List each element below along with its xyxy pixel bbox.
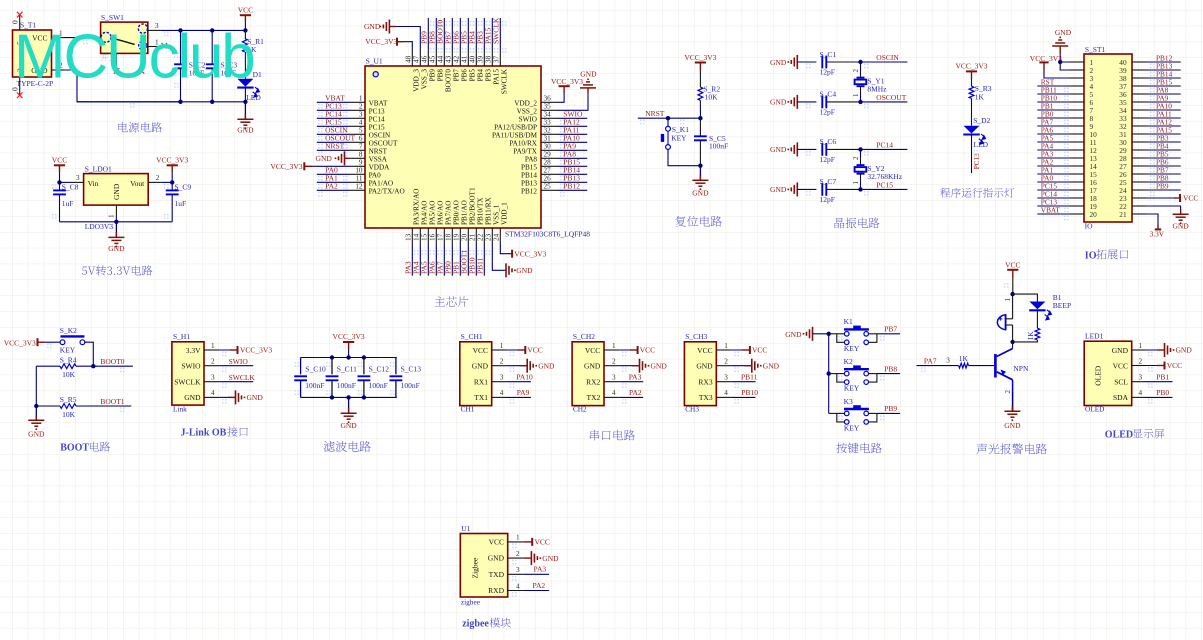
wire net PB14 from ST1 pin 38 <box>1146 77 1181 79</box>
svg-text:4: 4 <box>612 389 616 397</box>
svg-text:10K: 10K <box>705 93 719 102</box>
U1 top pin 47 VSS_3 <box>419 50 421 66</box>
svg-text:7: 7 <box>359 143 363 151</box>
svg-text:VCC: VCC <box>1113 361 1128 370</box>
svg-text:11: 11 <box>356 175 363 183</box>
ST1 left pin 19 <box>1070 205 1084 207</box>
svg-text:GND: GND <box>651 361 668 370</box>
svg-text:37: 37 <box>493 55 501 63</box>
capacitor S_C7 12pF <box>821 183 823 196</box>
title 串口电路 <box>590 430 635 441</box>
svg-text:S_C8: S_C8 <box>62 183 79 192</box>
U1 bottom pin 17 PA7/AO <box>443 228 445 244</box>
wire net SWCLK to U1 pin 37 <box>499 18 501 50</box>
svg-text:PA9: PA9 <box>517 388 530 397</box>
wire net PA12 from ST1 pin 32 <box>1146 125 1181 127</box>
svg-text:27: 27 <box>544 167 552 175</box>
wire net PC13 to U1 pin 2 <box>317 109 349 111</box>
svg-text:PA6/AO: PA6/AO <box>437 201 445 226</box>
transistor NPN <box>994 354 997 378</box>
capacitor S_C6 12pF <box>821 143 823 156</box>
S_CH3 pin 4 net PB10 <box>716 396 731 398</box>
SW1 bottom stub pins with no-connect X <box>115 53 117 69</box>
svg-text:GND: GND <box>237 126 254 135</box>
svg-text:GND: GND <box>108 244 125 253</box>
wire net OSCIN <box>861 61 908 63</box>
svg-text:PC13: PC13 <box>973 153 981 169</box>
svg-text:STM32F103C8T6_LQFP48: STM32F103C8T6_LQFP48 <box>505 230 590 239</box>
svg-text:PB1: PB1 <box>1156 372 1169 381</box>
svg-text:VCC: VCC <box>585 346 600 355</box>
svg-text:S_C7: S_C7 <box>820 177 837 186</box>
no-connect X bottom of T1 <box>17 92 23 98</box>
svg-text:3: 3 <box>516 566 520 574</box>
wire net PA4 from U1 pin 14 <box>419 244 421 276</box>
wire net PB12 from ST1 pin 40 <box>1146 61 1181 63</box>
svg-text:Vout: Vout <box>130 179 145 188</box>
wire net PA6 from U1 pin 16 <box>435 244 437 276</box>
svg-text:GND: GND <box>516 266 533 275</box>
svg-text:KEY: KEY <box>844 423 860 432</box>
svg-text:PB9: PB9 <box>1156 181 1169 190</box>
title 滤波电路 <box>324 441 371 452</box>
LED1 pin 1 to GND <box>1132 349 1146 351</box>
U1 left pin 5 OSCIN <box>349 133 365 135</box>
wire net PA2 to U1 pin 12 <box>317 189 349 191</box>
svg-text:3.3V: 3.3V <box>1150 230 1165 239</box>
wire net PB8 from K2 <box>877 373 900 375</box>
svg-text:GND: GND <box>488 554 505 563</box>
wire net PA8 from ST1 pin 36 <box>1146 93 1181 95</box>
svg-text:VCC_3V3: VCC_3V3 <box>365 37 397 46</box>
svg-text:5: 5 <box>359 127 363 135</box>
U1 left pin 1 VBAT <box>349 101 365 103</box>
wire net PA1 to ST1 pin 15 <box>1037 173 1070 175</box>
wire net OSCOUT to U1 pin 6 <box>317 141 349 143</box>
svg-text:GND: GND <box>1112 346 1129 355</box>
wire net PB13 from ST1 pin 39 <box>1146 69 1181 71</box>
wire net PC13 from D2 <box>971 135 973 174</box>
S_CH1 pin 3 net PA10 <box>492 381 507 383</box>
resistor S_R3 1K <box>969 86 974 98</box>
ground GND boot <box>35 406 37 420</box>
wire net BOOT0 <box>93 365 133 367</box>
wire net PB7 from ST1 pin 26 <box>1146 173 1181 175</box>
wire net PB0 from U1 pin 18 <box>451 244 453 276</box>
ST1 right pin 29 <box>1132 149 1146 151</box>
svg-text:2: 2 <box>516 550 520 558</box>
svg-text:S_LDO1: S_LDO1 <box>85 165 112 174</box>
LED D1 <box>244 52 246 79</box>
svg-text:PA3: PA3 <box>534 565 547 574</box>
ST1 left pin 18 <box>1070 197 1084 199</box>
ground GND reset <box>699 166 701 180</box>
svg-text:38: 38 <box>485 55 493 63</box>
svg-text:GND: GND <box>472 362 489 371</box>
SW1 label 开关 <box>101 54 116 61</box>
ST1 right pin 36 <box>1132 93 1146 95</box>
ST1 right pin 32 <box>1132 125 1146 127</box>
svg-text:VCC: VCC <box>752 346 767 355</box>
svg-text:PA10: PA10 <box>516 372 533 381</box>
capacitor S_C13 100nF <box>395 358 397 375</box>
LED S_D2 <box>971 98 973 125</box>
svg-text:GND: GND <box>340 421 357 430</box>
ST1 left pin 10 <box>1070 133 1084 135</box>
svg-text:30: 30 <box>544 143 552 151</box>
svg-text:20: 20 <box>1090 210 1098 219</box>
svg-text:PA7/AO: PA7/AO <box>445 201 453 226</box>
svg-text:VCC_3V3: VCC_3V3 <box>684 53 716 62</box>
wire net PB15 from U1 pin 28 <box>557 165 587 167</box>
svg-text:PB1/AO: PB1/AO <box>461 200 469 225</box>
svg-text:TX1: TX1 <box>474 393 488 402</box>
ST1 right pin 25 <box>1132 181 1146 183</box>
svg-text:LED1: LED1 <box>1085 332 1104 341</box>
U1 bottom pin 21 PB10/TX <box>475 228 477 244</box>
LED1 pin 4 net PB0 <box>1132 396 1146 398</box>
svg-text:GND: GND <box>696 362 713 371</box>
svg-text:GND: GND <box>316 154 333 163</box>
svg-text:Zigbee: Zigbee <box>471 557 480 578</box>
svg-text:GND: GND <box>364 22 381 31</box>
svg-text:GND: GND <box>770 98 787 107</box>
svg-text:S_C9: S_C9 <box>175 183 192 192</box>
svg-text:S_C4: S_C4 <box>820 90 837 99</box>
svg-text:32.768KHz: 32.768KHz <box>867 172 902 181</box>
svg-text:PA9/TX: PA9/TX <box>513 147 538 155</box>
svg-text:PA3: PA3 <box>629 372 642 381</box>
U1 right pin 31 PA10/RX <box>541 141 557 143</box>
svg-text:S_C11: S_C11 <box>337 365 357 374</box>
svg-text:TX2: TX2 <box>587 393 601 402</box>
svg-text:2: 2 <box>500 358 504 366</box>
svg-text:8: 8 <box>359 151 363 159</box>
svg-text:PA1/AO: PA1/AO <box>369 179 394 187</box>
svg-text:1: 1 <box>1139 342 1143 350</box>
wire net PA11 from ST1 pin 33 <box>1146 117 1181 119</box>
U1 top pin 41 PB5 <box>467 50 469 66</box>
ST1 right pin 33 <box>1132 117 1146 119</box>
wire net PB12 from U1 pin 25 <box>557 189 587 191</box>
svg-text:LDO3V3: LDO3V3 <box>85 222 114 231</box>
svg-text:S_C13: S_C13 <box>401 365 422 374</box>
SW1 pin 3 <box>148 29 161 31</box>
svg-text:1: 1 <box>612 342 616 350</box>
svg-text:S_C1: S_C1 <box>820 50 837 59</box>
svg-text:GND: GND <box>770 58 787 67</box>
svg-text:PA0: PA0 <box>369 171 382 179</box>
svg-text:J-Link OB: J-Link OB <box>181 428 227 439</box>
ST1 left pin 14 <box>1070 165 1084 167</box>
svg-text:PA2: PA2 <box>629 388 642 397</box>
svg-text:IO: IO <box>1085 250 1097 261</box>
wire net PA9 from ST1 pin 35 <box>1146 101 1181 103</box>
svg-text:S_SW1: S_SW1 <box>101 13 124 22</box>
wire net PB6 to U1 pin 42 <box>459 18 461 50</box>
svg-text:VDD_3: VDD_3 <box>413 69 421 92</box>
ST1 right pin 38 <box>1132 77 1146 79</box>
svg-text:41: 41 <box>461 55 469 63</box>
wire net PC14 to ST1 pin 18 <box>1037 197 1070 199</box>
svg-text:D1: D1 <box>253 70 262 79</box>
crystal S_Y2 32.768KHz <box>860 149 862 157</box>
wire net PB4 from ST1 pin 29 <box>1146 149 1181 151</box>
wire net PC15 to ST1 pin 17 <box>1037 189 1070 191</box>
svg-text:PC13: PC13 <box>369 107 385 115</box>
svg-text:100nF: 100nF <box>305 381 324 390</box>
svg-text:2: 2 <box>852 69 860 73</box>
svg-text:PB3: PB3 <box>485 69 493 82</box>
svg-text:12pF: 12pF <box>820 67 835 76</box>
svg-text:1: 1 <box>516 534 520 542</box>
svg-text:6: 6 <box>359 135 363 143</box>
capacitor S_C8 1uF <box>59 182 61 190</box>
svg-text:GND: GND <box>1055 28 1072 37</box>
svg-text:VSS_2: VSS_2 <box>517 107 538 115</box>
svg-text:GND: GND <box>580 70 597 79</box>
svg-text:2: 2 <box>1004 390 1012 394</box>
svg-text:3: 3 <box>500 374 504 382</box>
svg-text:PB11: PB11 <box>741 372 758 381</box>
wire net PA10 from U1 pin 31 <box>557 141 587 143</box>
wire SW1 pin3 to VCC node - top rail <box>161 29 246 31</box>
svg-text:3: 3 <box>76 174 80 182</box>
ST1 left pin 15 <box>1070 173 1084 175</box>
svg-text:PB0: PB0 <box>1156 388 1169 397</box>
svg-text:GND: GND <box>28 429 45 438</box>
svg-text:GND: GND <box>1004 421 1021 430</box>
svg-text:VCC: VCC <box>527 346 542 355</box>
svg-text:VDD_1: VDD_1 <box>501 202 509 225</box>
svg-text:23: 23 <box>485 233 493 241</box>
capacitor S_C5 100nF <box>699 118 701 136</box>
wire net PA5 from U1 pin 15 <box>427 244 429 276</box>
ST1 left pin 5 <box>1070 93 1084 95</box>
svg-text:IO: IO <box>1085 221 1093 230</box>
resistor S_R2 10K <box>698 87 703 100</box>
U1 right pin 27 PB14 <box>541 173 557 175</box>
T1 pin 2 <box>52 69 65 71</box>
S_CH1 pin 4 net PA9 <box>492 396 507 398</box>
svg-text:VCC: VCC <box>640 346 655 355</box>
svg-text:VCC_3V3: VCC_3V3 <box>156 156 188 165</box>
wire net RST to ST1 pin 4 <box>1037 85 1070 87</box>
ST1 right pin 40 <box>1132 61 1146 63</box>
wire net PB10 to ST1 pin 6 <box>1037 101 1070 103</box>
resistor S_R1 1K <box>244 30 246 38</box>
svg-text:PA2: PA2 <box>325 182 338 191</box>
U1 left pin 3 PC14 <box>349 117 365 119</box>
svg-text:17: 17 <box>437 233 445 241</box>
svg-text:40: 40 <box>469 55 477 63</box>
U1 left pin 11 PA1/AO <box>349 181 365 183</box>
ST1 left pin 13 <box>1070 157 1084 159</box>
svg-text:1: 1 <box>108 214 116 218</box>
U1 top pin 40 PB4 <box>475 50 477 66</box>
wire net PA15 from ST1 pin 31 <box>1146 133 1181 135</box>
wire K1 to C5 bottom node <box>668 150 700 166</box>
svg-text:1: 1 <box>1004 298 1012 302</box>
svg-text:10K: 10K <box>62 410 76 419</box>
svg-text:OSCIN: OSCIN <box>369 131 391 139</box>
filter bottom rail <box>301 396 397 398</box>
svg-text:PC15: PC15 <box>369 123 385 131</box>
svg-text:VCC_3V3: VCC_3V3 <box>551 77 583 86</box>
svg-text:KEY: KEY <box>60 346 76 355</box>
U1 right pin 30 PA9/TX <box>541 149 557 151</box>
S_CH2 pin 1 to VCC <box>604 349 619 351</box>
wire net PB3 to U1 pin 39 <box>483 18 485 50</box>
svg-text:4: 4 <box>500 389 504 397</box>
svg-text:32: 32 <box>544 127 552 135</box>
svg-text:BOOT1: BOOT1 <box>100 397 124 406</box>
svg-text:46: 46 <box>421 55 429 63</box>
svg-text:zigbee: zigbee <box>462 619 489 630</box>
wire net BOOT0 to U1 pin 44 <box>443 18 445 50</box>
svg-text:10: 10 <box>355 167 363 175</box>
svg-text:PB7: PB7 <box>884 325 897 334</box>
svg-text:SWCLK: SWCLK <box>492 17 501 44</box>
capacitor S_C4 12pF <box>821 96 823 109</box>
LDO pin 2 <box>148 181 161 183</box>
S_CH3 pin 2 to GND <box>716 365 731 367</box>
ST1 left pin 4 <box>1070 85 1084 87</box>
wire net PA9 from U1 pin 30 <box>557 149 587 151</box>
LED B1 BEEP branch <box>1013 294 1038 301</box>
S_CH3 pin 1 to VCC <box>716 349 731 351</box>
U1 top pin 46 PB9 <box>427 50 429 66</box>
U1 zigbee pin 2 to GND <box>508 557 524 559</box>
svg-text:SWIO: SWIO <box>181 362 201 371</box>
switch S_SW1 <box>101 22 148 53</box>
svg-text:GND: GND <box>1176 346 1193 355</box>
ST1 left pin 7 <box>1070 109 1084 111</box>
wire net PA4 to ST1 pin 12 <box>1037 149 1070 151</box>
U1 top pin 44 BOOT0 <box>443 50 445 66</box>
U1 bottom pin 13 PA3/RX/AO <box>411 228 413 244</box>
svg-text:35: 35 <box>544 103 552 111</box>
title 晶振电路 <box>835 218 880 229</box>
wire net PB7 from K1 <box>877 333 900 335</box>
svg-text:12pF: 12pF <box>820 107 835 116</box>
wire net PB6 from ST1 pin 27 <box>1146 165 1181 167</box>
svg-text:S_C12: S_C12 <box>369 365 390 374</box>
svg-text:PB10: PB10 <box>741 388 758 397</box>
U1 left pin 8 VSSA <box>349 157 365 159</box>
svg-text:PB0/AO: PB0/AO <box>453 200 461 225</box>
svg-text:PC14: PC14 <box>876 141 893 150</box>
svg-text:SWCLK: SWCLK <box>501 68 509 94</box>
svg-text:1: 1 <box>852 181 860 185</box>
U1 left pin 10 PA0 <box>349 173 365 175</box>
title 电源电路 <box>118 122 162 132</box>
wire K2 to BOOT0 node <box>85 342 93 366</box>
svg-text:1K: 1K <box>959 354 969 363</box>
ST1 right pin 30 <box>1132 141 1146 143</box>
svg-text:BOOT0: BOOT0 <box>445 69 453 93</box>
capacitor S_C3 10uF <box>211 30 213 64</box>
svg-text:VCC: VCC <box>1183 194 1198 203</box>
svg-text:42: 42 <box>453 55 461 63</box>
svg-text:S_D2: S_D2 <box>973 116 990 125</box>
buzzer body <box>997 315 1005 330</box>
U1 zigbee pin 4 net PA2 <box>508 590 524 592</box>
svg-text:VDDA: VDDA <box>369 163 391 171</box>
svg-text:OLED: OLED <box>1085 405 1104 414</box>
crystal S_Y1 8MHz <box>860 62 862 70</box>
svg-text:S_U1: S_U1 <box>366 57 383 66</box>
svg-text:100nF: 100nF <box>709 142 728 151</box>
ST1 left pin 12 <box>1070 149 1084 151</box>
svg-text:1K: 1K <box>975 92 985 101</box>
svg-text:SWCLK: SWCLK <box>174 378 201 387</box>
U1 top pin 42 PB6 <box>459 50 461 66</box>
svg-text:NPN: NPN <box>1013 364 1029 373</box>
U1 bottom pin 24 VDD_1 <box>499 228 501 244</box>
svg-text:VCC_3V3: VCC_3V3 <box>514 249 546 258</box>
wire net PB11 to ST1 pin 5 <box>1037 93 1070 95</box>
svg-text:22: 22 <box>477 233 485 241</box>
ST1 right pin 21 <box>1132 213 1146 215</box>
svg-text:8MHz: 8MHz <box>867 85 887 94</box>
U1 bottom pin 14 PA4/AO <box>419 228 421 244</box>
svg-text:VSSA: VSSA <box>369 155 388 163</box>
svg-text:TXD: TXD <box>489 570 505 579</box>
svg-text:S_CH2: S_CH2 <box>573 332 595 341</box>
svg-text:SWIO: SWIO <box>519 115 537 123</box>
U1 zigbee pin 1 to VCC <box>508 541 524 543</box>
svg-text:RX3: RX3 <box>698 378 712 387</box>
svg-text:S_C6: S_C6 <box>820 137 837 146</box>
wire net PA3 to ST1 pin 13 <box>1037 157 1070 159</box>
svg-text:GND: GND <box>1172 222 1189 231</box>
svg-text:BOOT: BOOT <box>60 443 89 454</box>
svg-text:PC14: PC14 <box>369 115 385 123</box>
wire net OSCOUT <box>861 101 908 103</box>
svg-text:VCC: VCC <box>238 5 253 14</box>
ST1 left pin 3 <box>1070 77 1084 79</box>
svg-text:VBAT: VBAT <box>1041 205 1061 214</box>
title 5V转3.3V电路 <box>82 265 152 275</box>
svg-text:1K: 1K <box>1027 331 1035 341</box>
capacitor S_C2 10uF <box>180 30 182 64</box>
svg-text:4: 4 <box>516 582 520 590</box>
ST1 right pin 24 <box>1132 189 1146 191</box>
U1 right pin 33 PA12/USB/DP <box>541 125 557 127</box>
svg-text:PA11/USB/DM: PA11/USB/DM <box>492 131 538 139</box>
svg-text:VCC: VCC <box>489 538 504 547</box>
svg-text:OLED: OLED <box>1093 365 1102 386</box>
buzzer top branch wire <box>1012 294 1014 319</box>
svg-text:1uF: 1uF <box>62 199 74 208</box>
svg-text:VCC_3V3: VCC_3V3 <box>4 338 36 347</box>
ground GND alarm <box>1011 406 1013 411</box>
svg-text:PA5/AO: PA5/AO <box>429 201 437 226</box>
S_CH3 pin 3 net PB11 <box>716 381 731 383</box>
svg-text:OSCIN: OSCIN <box>876 53 899 62</box>
S_CH2 pin 3 net PA3 <box>604 381 619 383</box>
svg-text:BEEP: BEEP <box>1053 301 1071 310</box>
svg-text:PB13: PB13 <box>521 179 537 187</box>
svg-text:2: 2 <box>724 358 728 366</box>
U1 left pin 9 VDDA <box>349 165 365 167</box>
svg-text:PB5: PB5 <box>469 69 477 82</box>
svg-text:PB9: PB9 <box>884 404 897 413</box>
wire net PA7 from U1 pin 17 <box>443 244 445 276</box>
wire net PB10 from U1 pin 21 <box>475 244 477 276</box>
svg-text:S_CH3: S_CH3 <box>685 332 707 341</box>
